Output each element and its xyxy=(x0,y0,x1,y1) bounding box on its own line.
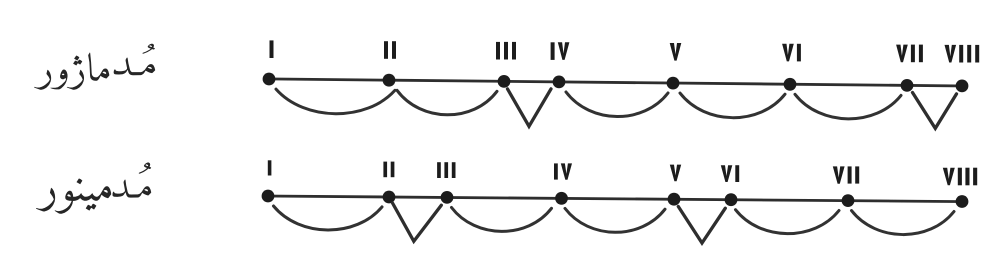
node IV (minor) xyxy=(555,192,568,205)
whole-tone arc VI-VII (major) xyxy=(795,94,901,119)
numeral III (minor) xyxy=(437,162,455,178)
node V (major) xyxy=(667,77,680,90)
node IV (major) xyxy=(553,76,566,89)
numeral VII (minor) xyxy=(833,166,859,183)
node VIII (minor) xyxy=(956,195,969,208)
node VII (major) xyxy=(901,79,914,92)
node VI (major) xyxy=(784,78,797,91)
numeral II (minor) xyxy=(383,162,394,178)
label "minur" (Minor, Persian) xyxy=(36,179,111,214)
node II (major) xyxy=(383,74,396,87)
node III (minor) xyxy=(441,191,454,204)
node VIII (major) xyxy=(956,80,969,93)
numeral I (major) xyxy=(270,40,274,58)
whole-tone arc I-II (minor) xyxy=(274,206,383,230)
whole-tone arc VII-VIII (minor) xyxy=(852,211,955,235)
whole-tone arc III-IV (minor) xyxy=(452,208,552,232)
numeral VI (major) xyxy=(782,44,801,62)
node I (major) xyxy=(263,73,276,86)
node VII (minor) xyxy=(842,194,855,207)
numeral V (minor) xyxy=(670,165,681,182)
whole-tone arc IV-V (minor) xyxy=(565,208,665,232)
node V (minor) xyxy=(668,193,681,206)
numeral VIII (minor) xyxy=(943,168,977,186)
numeral VI (minor) xyxy=(721,165,739,182)
scale line (major row) xyxy=(265,79,966,86)
semitone mark III-IV (major) xyxy=(508,89,552,126)
numeral IV (minor) xyxy=(554,163,572,179)
label "mod" of "mod mazhur" (Major mode, Persian) xyxy=(114,44,156,75)
node II (minor) xyxy=(383,191,396,204)
numeral VII (major) xyxy=(896,45,923,63)
scale line (minor row) xyxy=(264,196,965,202)
numeral IV (major) xyxy=(551,42,570,60)
semitone mark V-VI (minor) xyxy=(678,207,725,244)
whole-tone arc VI-VII (minor) xyxy=(736,210,840,234)
node III (major) xyxy=(498,75,511,88)
whole-tone arc I-II (major) xyxy=(276,89,395,114)
node I (minor) xyxy=(262,190,275,203)
numeral VIII (major) xyxy=(945,45,980,63)
numeral II (major) xyxy=(384,41,396,59)
numeral V (major) xyxy=(670,43,682,61)
whole-tone arc V-VI (major) xyxy=(680,93,785,118)
label "mazhur" (Major, Persian) xyxy=(34,53,109,90)
label "mod" of "mod minur" (Minor mode, Persian) xyxy=(113,163,152,198)
numeral I (minor) xyxy=(268,160,272,175)
semitone mark II-III (minor) xyxy=(393,203,442,241)
node VI (minor) xyxy=(725,193,738,206)
whole-tone arc IV-V (major) xyxy=(566,92,668,117)
whole-tone arc II-III (major) xyxy=(397,90,497,115)
numeral III (major) xyxy=(496,42,516,60)
semitone mark VII-VIII (major) xyxy=(913,93,957,129)
